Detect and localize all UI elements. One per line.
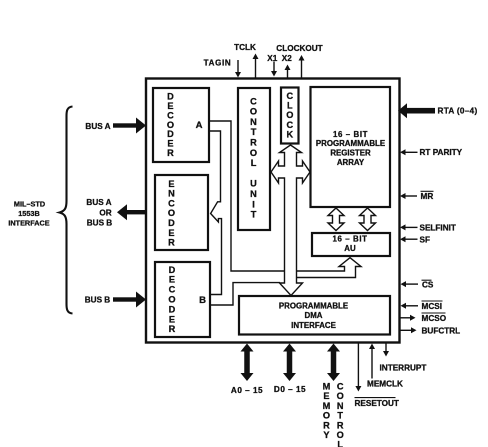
- svg-text:C: C: [250, 96, 257, 106]
- svg-text:MCSI: MCSI: [422, 302, 442, 311]
- svg-text:REGISTER: REGISTER: [330, 149, 371, 158]
- svg-text:T: T: [251, 127, 257, 137]
- svg-text:INTERRUPT: INTERRUPT: [380, 364, 427, 373]
- svg-text:E: E: [168, 179, 174, 189]
- svg-text:AU: AU: [344, 244, 356, 253]
- svg-text:BUFCTRL: BUFCTRL: [422, 327, 461, 336]
- svg-text:TAGIN: TAGIN: [204, 59, 232, 68]
- svg-text:INTERFACE: INTERFACE: [8, 219, 49, 228]
- svg-text:D: D: [169, 304, 176, 314]
- svg-text:A: A: [196, 120, 203, 131]
- svg-text:INTERFACE: INTERFACE: [291, 321, 336, 330]
- svg-text:O: O: [337, 430, 344, 440]
- svg-text:X1: X1: [267, 54, 277, 63]
- svg-text:O: O: [323, 411, 330, 421]
- svg-text:MR: MR: [421, 192, 434, 201]
- svg-text:C: C: [169, 285, 176, 295]
- svg-text:BUS B: BUS B: [87, 219, 113, 228]
- svg-text:CS: CS: [422, 280, 434, 289]
- svg-text:MEMCLK: MEMCLK: [367, 380, 403, 389]
- svg-text:N: N: [168, 189, 175, 199]
- svg-text:D: D: [169, 265, 176, 275]
- svg-text:L: L: [287, 101, 293, 111]
- svg-text:M: M: [323, 401, 331, 411]
- svg-text:CLOCKOUT: CLOCKOUT: [276, 44, 322, 53]
- svg-text:A0 – 15: A0 – 15: [231, 386, 263, 395]
- svg-text:SF: SF: [420, 236, 430, 245]
- svg-text:R: R: [167, 148, 174, 158]
- svg-text:1553B: 1553B: [18, 209, 40, 218]
- svg-text:C: C: [286, 91, 293, 101]
- svg-text:B: B: [199, 295, 206, 306]
- svg-text:N: N: [337, 401, 344, 411]
- svg-text:16 – BIT: 16 – BIT: [333, 130, 368, 139]
- svg-text:I: I: [252, 199, 255, 209]
- svg-text:C: C: [337, 382, 344, 392]
- svg-text:R: R: [323, 420, 330, 430]
- svg-text:PROGRAMMABLE: PROGRAMMABLE: [316, 139, 385, 148]
- svg-text:N: N: [250, 189, 257, 199]
- svg-text:C: C: [286, 120, 293, 130]
- svg-text:E: E: [323, 391, 329, 401]
- svg-text:RESETOUT: RESETOUT: [355, 399, 399, 408]
- svg-text:L: L: [251, 158, 257, 168]
- svg-text:O: O: [286, 110, 293, 120]
- svg-text:T: T: [337, 411, 343, 421]
- svg-text:MCSO: MCSO: [422, 314, 447, 323]
- svg-text:BUS A: BUS A: [86, 198, 111, 207]
- svg-text:R: R: [337, 420, 344, 430]
- svg-text:N: N: [250, 117, 257, 127]
- svg-text:O: O: [250, 148, 257, 158]
- svg-text:BUS B: BUS B: [85, 296, 111, 305]
- svg-text:O: O: [337, 391, 344, 401]
- svg-text:K: K: [286, 130, 293, 140]
- svg-text:R: R: [169, 324, 176, 334]
- svg-text:ARRAY: ARRAY: [337, 158, 365, 167]
- svg-text:C: C: [168, 198, 175, 208]
- svg-text:16 – BIT: 16 – BIT: [332, 235, 367, 244]
- svg-text:U: U: [250, 179, 257, 189]
- svg-text:E: E: [169, 275, 175, 285]
- svg-text:MIL–STD: MIL–STD: [14, 200, 45, 209]
- svg-text:TCLK: TCLK: [234, 43, 256, 52]
- svg-text:BUS A: BUS A: [85, 122, 110, 131]
- svg-text:O: O: [250, 107, 257, 117]
- svg-text:D0 – 15: D0 – 15: [274, 385, 306, 394]
- svg-text:PROGRAMMABLE: PROGRAMMABLE: [279, 302, 348, 311]
- svg-text:X2: X2: [282, 54, 292, 63]
- svg-text:DMA: DMA: [305, 311, 323, 320]
- svg-text:E: E: [169, 314, 175, 324]
- svg-text:O: O: [168, 208, 175, 218]
- svg-text:R: R: [250, 138, 257, 148]
- svg-text:RT PARITY: RT PARITY: [420, 148, 463, 157]
- svg-text:SELFINIT: SELFINIT: [420, 224, 456, 233]
- svg-text:T: T: [251, 210, 257, 220]
- svg-text:D: D: [168, 218, 175, 228]
- svg-text:Y: Y: [323, 430, 329, 440]
- svg-text:RTA (0–4): RTA (0–4): [438, 107, 478, 116]
- svg-text:L: L: [337, 440, 343, 447]
- svg-text:O: O: [168, 295, 175, 305]
- svg-text:M: M: [323, 382, 331, 392]
- svg-text:E: E: [168, 228, 174, 238]
- svg-text:R: R: [168, 238, 175, 248]
- svg-text:OR: OR: [99, 208, 111, 217]
